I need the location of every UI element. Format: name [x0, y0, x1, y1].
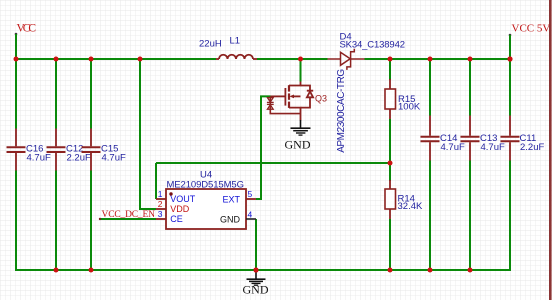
resistor R14 — [385, 163, 396, 270]
wire Q3 drain — [300, 59, 302, 82]
svg-text:EXT: EXT — [222, 195, 240, 205]
sheet border right — [549, 0, 552, 300]
capacitor C15 — [82, 128, 101, 171]
capacitor C14 — [421, 115, 440, 161]
svg-text:2: 2 — [158, 199, 163, 209]
wire C11 column — [509, 59, 511, 271]
source lead — [289, 108, 301, 121]
svg-text:L1: L1 — [230, 36, 241, 47]
wire gate to EXT — [256, 96, 271, 199]
svg-text:Q3: Q3 — [315, 94, 327, 104]
wire C12 column — [55, 59, 57, 270]
svg-text:ME2109D515M5G: ME2109D515M5G — [167, 180, 245, 191]
svg-text:GND: GND — [220, 215, 241, 225]
body diode — [301, 86, 314, 108]
svg-text:2.2uF: 2.2uF — [67, 153, 91, 164]
resistor R15 — [385, 59, 396, 163]
wire VCC_DC_EN — [100, 218, 156, 220]
wire top rail left segment — [16, 58, 216, 60]
wire U4 GND pin to bottom rail — [255, 219, 257, 270]
svg-text:VCC_DC_EN: VCC_DC_EN — [102, 210, 156, 220]
pin 5 EXT — [246, 198, 256, 200]
power port VCC 5V — [509, 23, 551, 60]
capacitor C11 — [501, 115, 520, 161]
svg-text:4: 4 — [248, 210, 253, 220]
pin 4 GND — [246, 218, 256, 220]
pin 2 VDD — [156, 208, 166, 210]
pin 3 CE — [156, 218, 166, 220]
ground bottom — [247, 270, 266, 285]
svg-text:1: 1 — [158, 189, 163, 199]
svg-text:32.4K: 32.4K — [398, 201, 423, 212]
svg-text:VDD: VDD — [170, 204, 190, 214]
svg-text:2.2uF: 2.2uF — [520, 142, 544, 153]
drain lead — [289, 81, 301, 86]
svg-text:4.7uF: 4.7uF — [481, 142, 505, 153]
svg-text:22uH: 22uH — [199, 39, 222, 50]
svg-text:4.7uF: 4.7uF — [102, 153, 126, 164]
gate bar — [284, 88, 286, 106]
svg-text:GND: GND — [243, 283, 269, 297]
junction bottom rail — [54, 267, 473, 272]
wire C14 column — [429, 59, 431, 270]
wire C16 column — [15, 59, 17, 271]
wire feedback line — [156, 162, 390, 164]
gate ESD zeners — [270, 96, 300, 113]
svg-text:VOUT: VOUT — [170, 194, 196, 204]
capacitor C13 — [461, 115, 480, 161]
wire bottom rail — [16, 269, 510, 271]
svg-text:100K: 100K — [398, 102, 421, 113]
svg-text:5: 5 — [248, 189, 253, 199]
svg-text:VCC 5V: VCC 5V — [512, 23, 551, 35]
wire VOUT riser — [155, 163, 157, 199]
capacitor C16 — [7, 128, 26, 171]
capacitor C12 — [47, 128, 66, 171]
power port VCC — [15, 23, 37, 60]
transistor Q3 — [267, 81, 313, 121]
wire C15 column — [90, 59, 92, 270]
junction top rail — [14, 56, 513, 61]
pin 1 VOUT — [156, 198, 166, 200]
gate lead — [271, 95, 286, 97]
junction feedback node — [388, 161, 393, 166]
wire C13 column — [469, 59, 471, 270]
svg-text:GND: GND — [285, 137, 311, 151]
inductor L1 — [216, 55, 257, 59]
wire top rail right segment — [365, 58, 511, 60]
channel segments — [288, 85, 290, 108]
wire top rail middle segment — [257, 58, 328, 60]
wire VDD riser — [140, 59, 156, 209]
svg-text:3: 3 — [158, 209, 163, 219]
ground under Q3 — [291, 120, 311, 135]
svg-text:4.7uF: 4.7uF — [441, 142, 465, 153]
svg-text:CE: CE — [170, 214, 183, 224]
arrow to channel — [292, 95, 301, 97]
svg-text:SK34_C138942: SK34_C138942 — [340, 40, 406, 51]
svg-text:4.7uF: 4.7uF — [27, 153, 51, 164]
svg-text:APM2300CAC-TRG: APM2300CAC-TRG — [336, 69, 347, 153]
diode D4 — [328, 49, 365, 70]
svg-text:VCC: VCC — [17, 23, 37, 35]
op-amp U4 box — [166, 189, 246, 229]
